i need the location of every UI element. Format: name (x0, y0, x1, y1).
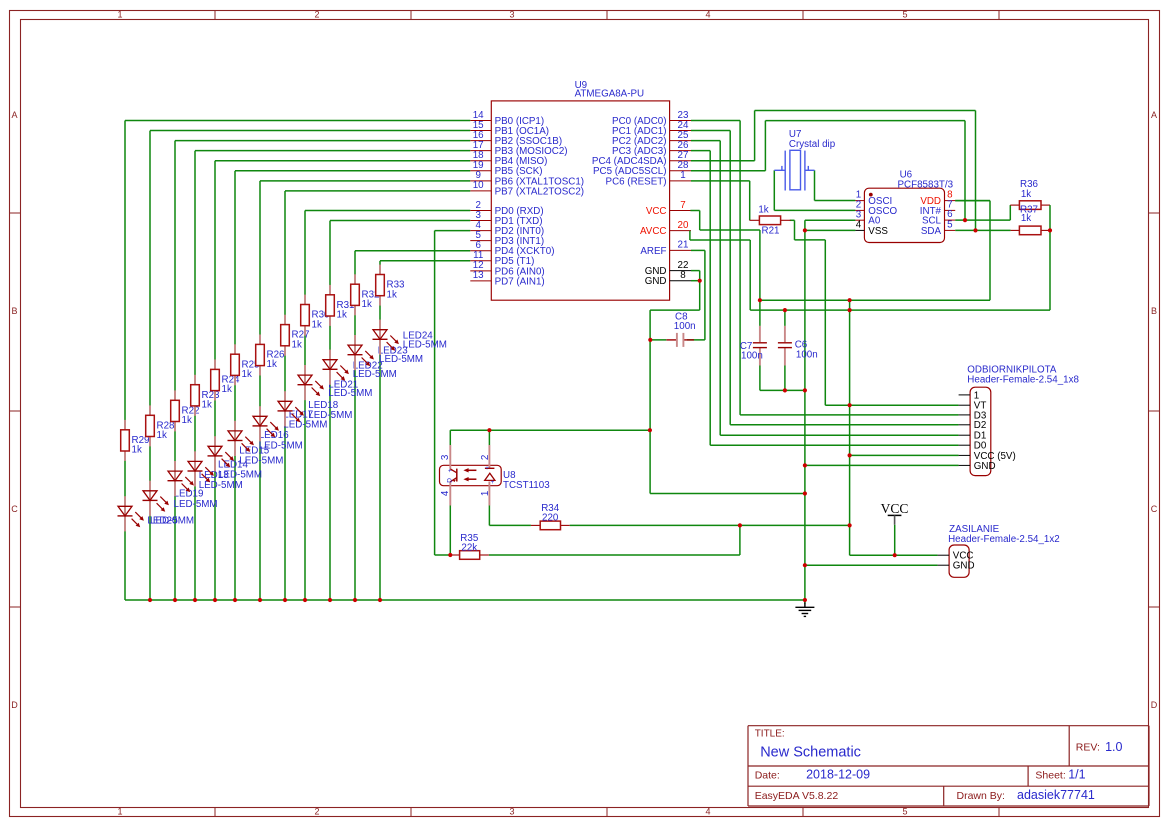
wire C6 top (784, 310, 786, 326)
wire A0 (805, 219, 856, 221)
svg-text:AREF: AREF (640, 246, 666, 257)
U9 pin 12 PD6 (AIN0) (470, 260, 544, 277)
svg-text:GND: GND (953, 561, 975, 572)
ODBIORNIKPILOTA pin 1 (959, 390, 980, 401)
U9 pin 4 PD2 (INT0) (470, 220, 544, 237)
ground symbol (795, 603, 814, 617)
svg-text:EasyEDA V5.8.22: EasyEDA V5.8.22 (755, 790, 839, 802)
resistor R35 22k (450, 533, 489, 559)
title block TITLE label (755, 729, 785, 740)
wire H1 VCC rail (760, 201, 990, 301)
U9 pin 14 PB0 (ICP1) (470, 110, 544, 127)
connector ODBIORNIKPILOTA label2 (967, 374, 1079, 385)
svg-text:1k: 1k (1021, 213, 1031, 224)
wire VSS (805, 229, 856, 231)
U6 pin 4 VSS (855, 220, 888, 237)
svg-text:22k: 22k (461, 542, 477, 553)
U9 pin 8 GND (645, 270, 691, 287)
U8 pin 4 number (440, 490, 451, 496)
junction dot GND8 (698, 279, 702, 283)
junction dot VSS (803, 228, 807, 232)
svg-text:1k: 1k (182, 415, 192, 426)
U9 pin 23 PC0 (ADC0) (612, 110, 691, 127)
wire U9 pin to column 10 (330, 221, 470, 600)
svg-text:4: 4 (705, 10, 710, 20)
resistor R22 1k (171, 390, 200, 431)
resistor R21 1k (750, 204, 791, 236)
wire R35 right up to R34 (489, 525, 740, 555)
resistor R25 1k (231, 344, 260, 385)
svg-text:New Schematic: New Schematic (760, 745, 861, 761)
junction dot SCL-PC5 (963, 218, 967, 222)
svg-text:7: 7 (680, 200, 685, 211)
capacitor C8 100n (650, 312, 695, 347)
junction dot H1-849 (848, 298, 852, 302)
U6 pin 5 SDA (921, 220, 955, 237)
svg-text:D: D (1151, 700, 1158, 710)
svg-text:3: 3 (440, 454, 451, 460)
wire U8 pin1 to R34 (489, 506, 531, 526)
ODBIORNIKPILOTA pin VCC (5V) (959, 451, 1016, 462)
crystal U7 Crystal dip (774, 129, 835, 190)
junction dot U8 GND (648, 428, 652, 432)
wire OSCO to crystal (774, 170, 855, 210)
wire AVCC to H2 rail (690, 231, 750, 311)
svg-text:21: 21 (678, 240, 689, 251)
svg-text:3: 3 (509, 10, 514, 20)
svg-text:2: 2 (314, 807, 319, 817)
U9 pin 11 PD5 (T1) (470, 250, 534, 267)
U8 light arrows (463, 468, 476, 481)
junction dot C6-bottom (783, 388, 787, 392)
wire U9 pin to column 5 (215, 161, 470, 600)
junction dot R35-R34 (738, 523, 742, 527)
wire PC4 to SDA (691, 111, 976, 231)
wire PC0 to header D3 (691, 121, 959, 415)
resistor R28 1k (146, 405, 175, 446)
ODBIORNIKPILOTA pin D3 (959, 410, 987, 421)
U9 pin 10 PB7 (XTAL2TOSC2) (470, 180, 584, 197)
svg-text:LED-5MM: LED-5MM (239, 456, 283, 467)
svg-text:LED-5MM: LED-5MM (174, 499, 218, 510)
resistor R27 1k (281, 315, 310, 356)
svg-text:3: 3 (509, 807, 514, 817)
svg-text:adasiek77741: adasiek77741 (1017, 788, 1095, 802)
wire header GND row (805, 464, 959, 466)
title block DrawnBy label (957, 790, 1005, 802)
svg-text:1k: 1k (222, 384, 232, 395)
svg-text:VCC: VCC (881, 501, 909, 516)
svg-text:100n: 100n (674, 321, 696, 332)
U6 pin 8 VDD (920, 190, 955, 207)
resistor R37 1k (1011, 205, 1050, 235)
resistor R26 1k (256, 335, 285, 376)
svg-text:1k: 1k (337, 310, 347, 321)
wire U9 pin to column 1 (125, 121, 470, 601)
wire VCC distribution vertical (850, 300, 938, 555)
junction dot H2-849 (848, 308, 852, 312)
svg-text:1k: 1k (157, 430, 167, 441)
U8 refdes label (503, 470, 516, 481)
U9 pin 16 PB2 (SSOC1B) (470, 130, 562, 147)
U9 pin 2 PD0 (RXD) (470, 200, 543, 217)
wire U9 pin to column 7 (260, 181, 470, 600)
svg-text:LED-5MM: LED-5MM (150, 516, 194, 527)
svg-text:A: A (1151, 110, 1157, 120)
capacitor C7 100n (740, 326, 767, 366)
LED LED13 LED-5MM (168, 461, 243, 496)
svg-text:1.0: 1.0 (1105, 740, 1122, 754)
svg-text:1/1: 1/1 (1068, 768, 1085, 782)
U9 pin 20 AVCC (640, 220, 691, 237)
U6 pin 1 OSCI (855, 190, 892, 207)
wire OSCI to crystal (815, 170, 856, 200)
svg-text:PCF8583T/3: PCF8583T/3 (898, 179, 954, 190)
LED LED18 LED-5MM (278, 391, 353, 426)
svg-text:R21: R21 (762, 225, 780, 236)
svg-text:AVCC: AVCC (640, 226, 667, 237)
svg-text:A: A (11, 110, 17, 120)
U6 pin 3 A0 (855, 209, 880, 226)
svg-text:1k: 1k (242, 369, 252, 380)
IC U6 PCF8583T/3 body (864, 188, 944, 242)
wire R21 to VT (790, 220, 959, 405)
wire U8 top to GND (450, 430, 650, 445)
title block DrawnBy value (1017, 788, 1095, 802)
junction dot SDA-PC4 (973, 228, 977, 232)
junction dot U9-GND (803, 491, 807, 495)
svg-text:Drawn By:: Drawn By: (957, 790, 1005, 802)
wire SCL row (955, 205, 1010, 220)
resistor R32 1k (351, 274, 380, 315)
U9 pin 28 PC5 (ADC5SCL) (593, 160, 691, 177)
connector ODBIORNIKPILOTA body (970, 387, 991, 475)
wire U9 pin to column 3 (175, 141, 470, 600)
svg-text:VSS: VSS (868, 226, 888, 237)
U9 refdes label (575, 80, 588, 91)
wire PC5 to SCL (691, 121, 965, 221)
ODBIORNIKPILOTA pin GND (959, 461, 996, 472)
svg-text:B: B (1151, 306, 1157, 316)
svg-text:2: 2 (314, 10, 319, 20)
wire header VCC row (850, 454, 959, 456)
resistor R36 1k (1010, 179, 1050, 230)
wire R34 right to VCC (570, 524, 850, 526)
svg-text:Crystal dip: Crystal dip (789, 139, 836, 150)
svg-text:LED-5MM: LED-5MM (259, 440, 303, 451)
connector ODBIORNIKPILOTA label1 (967, 365, 1057, 376)
LED LED23 LED-5MM (348, 335, 424, 370)
svg-text:100n: 100n (741, 351, 763, 362)
U9 pin 9 PB6 (XTAL1TOSC1) (470, 170, 584, 187)
U9 pin 3 PD1 (TXD) (470, 210, 542, 227)
wire PD2 to R35 junction (435, 231, 471, 555)
U6 refdes label (900, 170, 913, 181)
svg-text:1: 1 (480, 491, 491, 496)
svg-text:+: + (447, 468, 454, 472)
LED LED14 LED-5MM (188, 451, 263, 486)
wire H2 AVCC rail (750, 230, 1050, 310)
svg-text:LED-5MM: LED-5MM (199, 480, 243, 491)
resistor R24 1k (211, 360, 240, 401)
svg-text:REV:: REV: (1076, 741, 1100, 753)
ODBIORNIKPILOTA pin D2 (959, 420, 987, 431)
svg-text:PD7 (AIN1): PD7 (AIN1) (495, 276, 545, 287)
U8 pin 3 number (440, 454, 451, 460)
svg-text:1: 1 (117, 10, 122, 20)
U9 pin 24 PC1 (ADC1) (612, 120, 691, 137)
IC U9 ATMEGA8A-PU body (491, 101, 669, 300)
title block REV label (1076, 741, 1100, 753)
junction dot R35 node (448, 553, 452, 557)
LED LED17 LED-5MM (253, 406, 328, 441)
U9 pin 13 PD7 (AIN1) (470, 270, 544, 287)
svg-text:1k: 1k (1021, 189, 1031, 200)
svg-text:2018-12-09: 2018-12-09 (806, 768, 870, 782)
title block Sheet label (1035, 769, 1065, 781)
wire SDA row (955, 229, 1010, 231)
title block EasyEDA label (755, 790, 839, 802)
U8 pin 2 number (480, 455, 491, 460)
junction dot VCC5V (848, 453, 852, 457)
svg-text:1k: 1k (267, 359, 277, 370)
svg-text:4: 4 (440, 490, 451, 496)
U9 pin 19 PB5 (SCK) (470, 160, 542, 177)
resistor R31 1k (326, 285, 355, 326)
wire PC1 to header D2 (691, 131, 959, 425)
svg-text:10: 10 (473, 180, 484, 191)
resistor R29 1k (121, 420, 150, 461)
title block Sheet value (1068, 768, 1085, 782)
svg-text:ATMEGA8A-PU: ATMEGA8A-PU (575, 89, 645, 100)
svg-text:B: B (11, 306, 17, 316)
svg-text:1k: 1k (758, 204, 768, 215)
svg-text:Date:: Date: (755, 769, 780, 781)
junction dot caps-GND (803, 388, 807, 392)
U8 pin 3 lead (449, 445, 451, 469)
U6 pin 2 OSCO (855, 200, 897, 217)
svg-text:Sheet:: Sheet: (1035, 769, 1065, 781)
junction dot bus-GND (803, 598, 807, 602)
svg-text:VCC: VCC (646, 206, 667, 217)
svg-text:220: 220 (542, 512, 559, 523)
svg-text:Header-Female-2.54_1x2: Header-Female-2.54_1x2 (948, 534, 1060, 545)
svg-text:TITLE:: TITLE: (755, 729, 785, 740)
U8 pin 1 number (480, 491, 491, 496)
LED LED22 LED-5MM (323, 350, 397, 385)
junction dot H2-C6 (783, 308, 787, 312)
svg-text:LED-5MM: LED-5MM (379, 354, 423, 365)
wire VDD (955, 200, 990, 202)
junction dot C8-GND (648, 338, 652, 342)
U8 pin 4 lead (449, 482, 451, 506)
wire U9 pin to column 12 (380, 261, 470, 600)
wire RESET to R21 (691, 181, 750, 220)
svg-text:20: 20 (678, 220, 689, 231)
junction dot VT-VCC (848, 403, 852, 407)
wire PC3 to header D0 (691, 151, 959, 446)
wire PC2 to header D1 (691, 141, 959, 436)
U8 phototransistor (447, 468, 457, 482)
U9 pin 27 PC4 (ADC4SDA) (592, 150, 691, 167)
svg-text:5: 5 (947, 220, 953, 231)
U9 pin 25 PC2 (ADC2) (612, 130, 691, 147)
U8 pin 1 lead (488, 482, 490, 506)
resistor R30 1k (301, 295, 330, 336)
power flag VCC (881, 501, 909, 525)
svg-text:LED-5MM: LED-5MM (403, 340, 447, 351)
LED LED15 LED-5MM (208, 436, 284, 471)
title block Date value (806, 768, 870, 782)
svg-text:TCST1103: TCST1103 (503, 480, 550, 491)
svg-text:LED-5MM: LED-5MM (353, 369, 397, 380)
svg-text:D2: D2 (974, 420, 987, 431)
svg-text:LED-5MM: LED-5MM (283, 420, 327, 431)
junction dot R34-VCC (848, 523, 852, 527)
svg-text:GND: GND (974, 461, 996, 472)
wire U9 pin to column 2 (150, 131, 470, 600)
svg-text:1k: 1k (202, 400, 212, 411)
svg-text:D: D (447, 478, 454, 483)
wire U9 pin to column 9 (305, 211, 470, 601)
wire U8 pin4 down (449, 506, 451, 556)
connector ZASILANIE label1 (949, 524, 1000, 535)
svg-text:C: C (11, 504, 18, 514)
ZASILANIE pin GND (938, 561, 975, 572)
title block frame (748, 726, 1149, 806)
U8 value label (503, 480, 550, 491)
U8 LED (485, 465, 495, 486)
junction dots LED bus (148, 598, 382, 602)
svg-text:LED-5MM: LED-5MM (218, 470, 262, 481)
U9 value label (575, 89, 645, 100)
U9 pin 5 PD3 (INT1) (470, 230, 544, 247)
svg-text:GND: GND (645, 276, 667, 287)
wire U9 pin to column 4 (195, 151, 470, 600)
LED LED19 LED-5MM (143, 481, 218, 516)
LED LED20 LED-5MM (118, 496, 195, 531)
junction dot header-GND (803, 463, 807, 467)
wire VCC pin to C7 junction (690, 211, 760, 301)
connector ZASILANIE body (949, 545, 969, 577)
U8 pin 2 lead (488, 445, 490, 468)
resistor R23 1k (191, 375, 220, 416)
svg-text:1k: 1k (362, 299, 372, 310)
svg-text:4: 4 (856, 220, 862, 231)
svg-text:8: 8 (680, 270, 686, 281)
U9 pin 1 PC6 (RESET) (606, 170, 691, 187)
svg-text:2: 2 (480, 455, 491, 460)
resistor R33 1k (376, 265, 405, 306)
svg-text:5: 5 (902, 10, 907, 20)
U9 pin 17 PB3 (MOSIOC2) (470, 140, 567, 157)
U6 pin 6 SCL (922, 209, 955, 226)
wire C7 C6 bottoms (760, 366, 805, 391)
wire U9 GND pins (650, 271, 805, 494)
title block Date label (755, 769, 780, 781)
U9 pin 26 PC3 (ADC3) (612, 140, 691, 157)
junction dot ZAS-GND (803, 563, 807, 567)
wire U9 pin to column 6 (235, 171, 470, 600)
LED LED21 LED-5MM (298, 365, 373, 400)
title block title text (760, 745, 861, 761)
svg-text:LED-5MM: LED-5MM (328, 388, 372, 399)
U9 pin 22 GND (645, 260, 691, 277)
wire ZASILANIE GND row (805, 564, 938, 566)
svg-text:C: C (1151, 504, 1158, 514)
junction dot U8pin2 top (487, 428, 491, 432)
svg-text:LED-5MM: LED-5MM (308, 410, 352, 421)
svg-text:13: 13 (473, 270, 484, 281)
svg-text:+: + (485, 465, 489, 472)
junction dot H1-C7 (758, 298, 762, 302)
wire U9 pin to column 8 (285, 191, 470, 600)
U9 pin 6 PD4 (XCKT0) (470, 240, 554, 257)
svg-text:PC6 (RESET): PC6 (RESET) (606, 176, 667, 187)
junction dot VCC symbol (893, 553, 897, 557)
svg-text:D: D (11, 700, 18, 710)
svg-text:SDA: SDA (921, 226, 942, 237)
svg-text:1k: 1k (312, 319, 322, 330)
LED LED16 LED-5MM (228, 421, 303, 456)
svg-text:1k: 1k (387, 289, 397, 300)
U6 value label (898, 179, 954, 190)
svg-text:PB7 (XTAL2TOSC2): PB7 (XTAL2TOSC2) (495, 186, 584, 197)
ODBIORNIKPILOTA pin D0 (959, 441, 987, 452)
wire U9 pin to column 11 (355, 251, 470, 600)
wire LED ground bus (125, 599, 805, 601)
ZASILANIE pin VCC (938, 551, 974, 562)
svg-text:+: + (491, 479, 495, 486)
svg-text:Header-Female-2.54_1x8: Header-Female-2.54_1x8 (967, 374, 1079, 385)
resistor R34 220 (531, 503, 570, 530)
connector ZASILANIE label2 (948, 534, 1060, 545)
U9 pin 18 PB4 (MISO) (470, 150, 547, 167)
ODBIORNIKPILOTA pin VT (959, 401, 987, 412)
svg-text:5: 5 (902, 807, 907, 817)
U9 pin 21 AREF (640, 240, 691, 257)
svg-text:1: 1 (117, 807, 122, 817)
title block REV value (1105, 740, 1122, 754)
svg-text:1k: 1k (292, 339, 302, 350)
wire GND vertical (804, 220, 806, 604)
svg-text:100n: 100n (796, 349, 818, 360)
ODBIORNIKPILOTA pin D1 (959, 431, 987, 442)
LED LED24 LED-5MM (373, 320, 447, 355)
wire C7 top (759, 300, 761, 326)
svg-text:1: 1 (680, 170, 685, 181)
U9 pin 7 VCC (646, 200, 691, 217)
wire AREF to C8 (687, 250, 705, 340)
capacitor C6 100n (778, 326, 818, 366)
optocoupler U8 TCST1103 body (440, 465, 502, 485)
junction dot R36R37 (1048, 228, 1052, 232)
wire ZASILANIE VCC row (894, 525, 896, 556)
U6 pin 7 INT# (920, 200, 955, 217)
svg-text:1k: 1k (132, 445, 142, 456)
svg-text:4: 4 (705, 807, 710, 817)
U9 pin 15 PB1 (OC1A) (470, 120, 549, 137)
